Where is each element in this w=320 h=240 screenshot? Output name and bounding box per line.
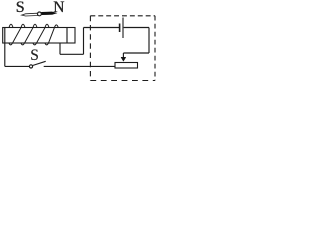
compass needle pivot <box>38 12 42 16</box>
wire: top wire to battery <box>84 27 120 29</box>
solenoid winding turn 3 <box>21 24 37 45</box>
solenoid winding turn 5 <box>45 25 58 45</box>
svg-text:S: S <box>16 0 25 16</box>
battery positive plate (tall) <box>122 18 124 39</box>
dashed enclosure box left edge <box>89 16 91 81</box>
rheostat slider arrowhead <box>121 57 126 61</box>
svg-text:S: S <box>30 47 39 64</box>
wire: to slider arrow <box>123 52 149 54</box>
compass needle north half (black) <box>41 12 56 15</box>
solenoid left terminal wire (down to bottom wire) <box>4 28 6 67</box>
wire: coil right terminal down <box>59 43 61 54</box>
wire: riser up to top wire <box>83 28 85 55</box>
solenoid L core rectangle <box>3 28 75 44</box>
rheostat slider arrow stem <box>122 53 124 58</box>
dashed enclosure box top edge <box>90 15 155 17</box>
switch lever (open) <box>33 61 46 65</box>
wire: right side down <box>148 28 150 54</box>
solenoid winding turn 4 <box>33 24 49 45</box>
dashed enclosure box bottom edge <box>90 80 155 82</box>
bottom wire: switch to rheostat <box>44 65 115 67</box>
dashed enclosure box right edge <box>154 16 156 81</box>
bottom wire: coil to switch <box>5 65 30 67</box>
solenoid winding turn 1 top arc <box>9 24 13 27</box>
switch S pivot contact <box>29 65 32 68</box>
solenoid winding turn 2 (hook+diagonal+arc) <box>9 24 25 45</box>
compass needle south half (outlined) <box>22 13 38 16</box>
solenoid right end-cap line <box>66 28 68 44</box>
wire: battery to right corner <box>124 27 149 29</box>
wire: bottom of coil to riser <box>60 53 84 55</box>
battery negative plate (short) <box>119 24 121 33</box>
rheostat R body <box>115 63 138 69</box>
